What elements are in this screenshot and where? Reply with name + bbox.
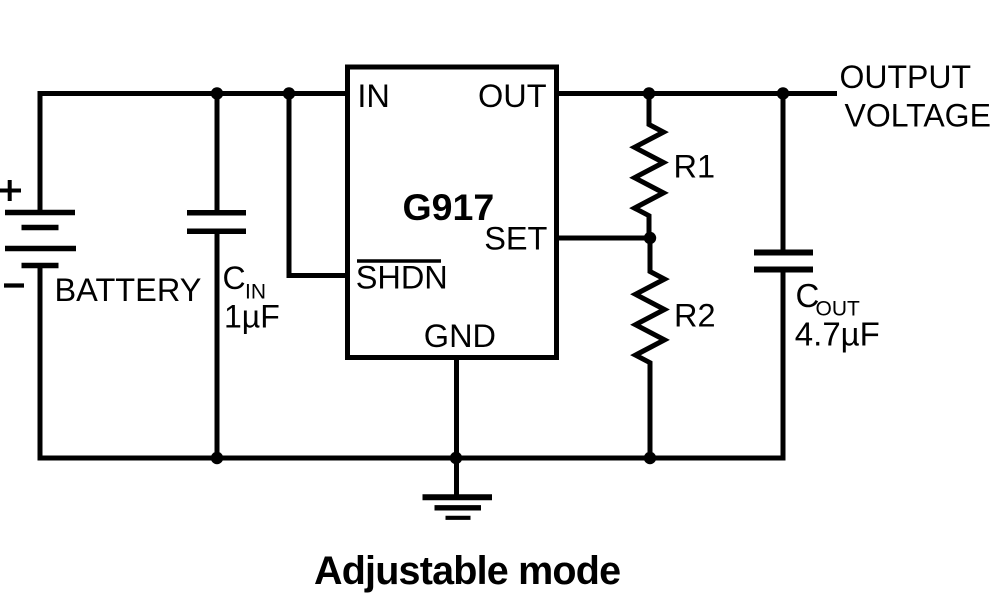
svg-text:GND: GND <box>424 318 496 354</box>
svg-text:SET: SET <box>484 221 547 257</box>
svg-text:4.7µF: 4.7µF <box>795 316 880 353</box>
wire bottom rail <box>38 456 784 461</box>
wire SET pin to divider node <box>559 236 650 241</box>
battery plus sign <box>0 180 21 201</box>
svg-text:OUT: OUT <box>478 78 547 114</box>
wire COUT bottom lead <box>781 272 786 461</box>
battery minus sign <box>4 283 24 287</box>
wire CIN top lead <box>215 94 220 212</box>
resistor R2 <box>636 238 665 458</box>
svg-text:BATTERY: BATTERY <box>55 272 202 308</box>
wire CIN bottom lead <box>215 232 220 458</box>
svg-text:G917: G917 <box>403 186 495 228</box>
svg-text:1µF: 1µF <box>224 298 280 334</box>
svg-text:C: C <box>223 260 246 296</box>
svg-text:IN: IN <box>357 78 390 114</box>
ground <box>423 497 493 518</box>
svg-text:OUTPUT: OUTPUT <box>840 59 972 95</box>
IC U1 G917 box <box>348 67 557 358</box>
resistor R1 <box>635 94 664 239</box>
node SHDN branch top <box>283 87 295 99</box>
wire OUT pin to output <box>559 91 837 96</box>
node R1 top <box>643 87 655 99</box>
capacitor COUT <box>754 253 813 270</box>
svg-text:VOLTAGE: VOLTAGE <box>845 97 991 133</box>
node R2 bottom <box>644 452 656 464</box>
node CIN bottom <box>211 452 223 464</box>
capacitor CIN <box>187 213 246 232</box>
battery <box>5 213 76 266</box>
wire GND pin lead <box>454 357 459 495</box>
svg-text:SHDN: SHDN <box>356 260 448 296</box>
node CIN top <box>211 87 223 99</box>
svg-text:R2: R2 <box>674 298 716 334</box>
node SET divider <box>644 232 656 244</box>
wire COUT top lead <box>781 94 786 251</box>
svg-text:R1: R1 <box>674 149 716 185</box>
node COUT top <box>777 87 789 99</box>
wire SHDN branch <box>289 94 345 276</box>
wire top from battery to IN pin <box>40 94 345 213</box>
svg-text:Adjustable mode: Adjustable mode <box>314 549 620 593</box>
node junction dots <box>211 87 789 464</box>
wire battery negative lead down to bottom rail <box>38 266 43 458</box>
node GND bottom <box>450 452 462 464</box>
